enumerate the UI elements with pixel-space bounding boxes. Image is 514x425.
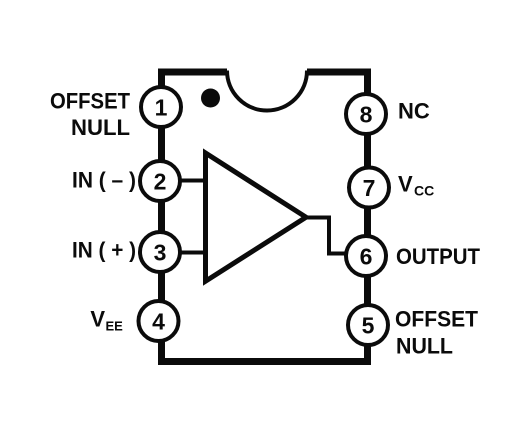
svg-text:8: 8 [360,102,373,128]
svg-text:OUTPUT: OUTPUT [396,244,481,269]
svg-text:5: 5 [362,313,375,339]
svg-text:EE: EE [106,319,124,334]
svg-text:NULL: NULL [396,334,453,359]
svg-text:NULL: NULL [71,115,130,140]
svg-text:6: 6 [360,244,373,270]
svg-text:IN ( – ): IN ( – ) [72,168,136,193]
svg-text:NC: NC [398,99,430,124]
svg-text:4: 4 [152,309,165,335]
svg-text:V: V [90,307,105,332]
svg-text:V: V [398,172,413,197]
svg-text:OFFSET: OFFSET [395,307,479,332]
svg-text:7: 7 [363,175,376,201]
svg-text:3: 3 [154,240,167,266]
svg-text:1: 1 [155,95,168,121]
svg-text:CC: CC [414,183,434,199]
svg-text:2: 2 [154,169,167,195]
svg-text:IN ( + ): IN ( + ) [72,238,136,263]
svg-text:OFFSET: OFFSET [50,89,131,114]
